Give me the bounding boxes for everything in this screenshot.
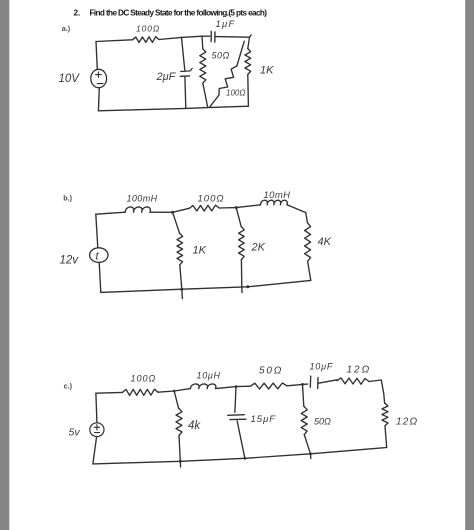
svg-text:100Ω: 100Ω: [198, 194, 225, 205]
svg-text:10μH: 10μH: [197, 371, 221, 381]
svg-text:12Ω: 12Ω: [396, 417, 418, 428]
svg-text:1K: 1K: [260, 65, 274, 77]
svg-text:10V: 10V: [59, 73, 81, 85]
svg-text:Find the DC Steady State for t: Find the DC Steady State for the followi…: [90, 8, 268, 17]
svg-text:4k: 4k: [188, 420, 201, 432]
svg-text:12v: 12v: [60, 255, 80, 267]
svg-text:50Ω: 50Ω: [259, 366, 283, 377]
svg-text:5v: 5v: [69, 427, 81, 439]
svg-text:50Ω: 50Ω: [212, 51, 230, 61]
svg-text:4K: 4K: [318, 236, 332, 248]
svg-text:b.): b.): [63, 193, 72, 202]
svg-text:2K: 2K: [251, 242, 266, 254]
svg-text:10mH: 10mH: [264, 190, 291, 201]
svg-text:1μF: 1μF: [216, 19, 236, 30]
svg-text:2μF: 2μF: [156, 71, 177, 83]
svg-text:2.: 2.: [74, 8, 81, 17]
svg-text:10μF: 10μF: [310, 362, 334, 372]
svg-text:100Ω: 100Ω: [131, 374, 157, 384]
svg-text:15μF: 15μF: [251, 414, 277, 425]
svg-text:c.): c.): [64, 381, 73, 390]
svg-text:50Ω: 50Ω: [314, 417, 331, 427]
svg-text:a.): a.): [62, 24, 71, 33]
svg-text:100mH: 100mH: [127, 194, 158, 204]
svg-text:1K: 1K: [193, 245, 207, 257]
svg-text:12Ω: 12Ω: [347, 365, 372, 376]
svg-text:100Ω: 100Ω: [226, 89, 245, 98]
svg-text:100Ω: 100Ω: [136, 24, 160, 34]
